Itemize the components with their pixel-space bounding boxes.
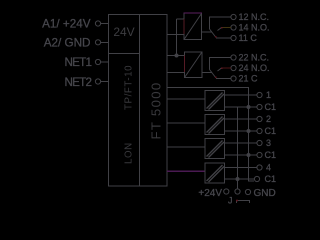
terminal C1 circle c (257, 152, 262, 157)
wire 14 N.O. (222, 27, 232, 29)
svg-text:1: 1 (266, 90, 271, 100)
node junction C1 c (247, 153, 251, 157)
node SW1 N.O. contact speck (221, 27, 223, 29)
wire 12 N.C. (210, 17, 232, 29)
svg-text:4: 4 (266, 163, 271, 173)
svg-text:21 C: 21 C (239, 74, 259, 84)
terminal A1 circle (95, 21, 100, 26)
terminal 2 circle (257, 116, 262, 121)
opto-isolator O3 (205, 139, 225, 159)
contact SW2 (relay2) (202, 55, 236, 81)
module U1 main box (109, 15, 168, 187)
wire relay1 coil top feed (177, 18, 185, 20)
node SW1 N.C. contact speck (215, 36, 217, 38)
terminal 22 circle (231, 55, 236, 60)
node junction C1 b (247, 129, 251, 133)
svg-text:C1: C1 (265, 174, 277, 184)
wire A1 stub (101, 23, 109, 25)
wire relay2 top feed drop (176, 19, 178, 56)
terminal 11 circle (231, 35, 236, 40)
wire relay1 coil bottom feed (167, 34, 184, 36)
terminal 4 circle (257, 165, 262, 170)
terminal C1 circle b (257, 128, 262, 133)
wire output 2 (225, 118, 258, 120)
jumper J line (237, 201, 250, 204)
relay K2 coil (185, 52, 203, 78)
wire output 4 (225, 167, 258, 169)
24V cell divider (109, 53, 140, 55)
terminal NET2 circle (95, 79, 100, 84)
wire C1 return bus (237, 107, 239, 189)
svg-text:GND: GND (254, 188, 276, 199)
svg-text:22 N.C.: 22 N.C. (239, 53, 270, 63)
terminal NET1 circle (95, 59, 100, 64)
node junction C1 a (247, 105, 251, 109)
terminal GND circle (245, 189, 250, 194)
svg-text:A2/ GND: A2/ GND (44, 36, 91, 49)
terminal 1 circle (257, 92, 262, 97)
wire opto2 input (167, 122, 205, 124)
terminal 14 circle (231, 25, 236, 30)
svg-text:J: J (228, 196, 233, 206)
svg-text:11 C: 11 C (239, 33, 258, 43)
contact SW1 (relay1) (202, 14, 237, 40)
wire 11 C (216, 37, 231, 39)
wire C1 a (225, 106, 258, 108)
wire relay2 coil top feed (167, 55, 185, 57)
svg-text:2: 2 (266, 114, 271, 124)
svg-text:C1: C1 (265, 102, 277, 112)
svg-text:C1: C1 (265, 150, 277, 160)
svg-text:FT 5000: FT 5000 (149, 82, 164, 140)
wire 22 N.C. (210, 58, 232, 70)
svg-text:C1: C1 (265, 126, 277, 136)
terminal 21 circle (231, 76, 236, 81)
svg-text:24 N.O.: 24 N.O. (239, 63, 270, 73)
wire relay2 coil bottom feed (167, 72, 185, 74)
svg-text:A1/ +24V: A1/ +24V (42, 18, 91, 31)
contact SW2 N.O. tick (218, 68, 222, 71)
contact SW2 arm (210, 70, 217, 79)
opto-isolator O2 (205, 115, 225, 135)
wire C1 c (225, 154, 258, 156)
module internal divider (139, 15, 141, 187)
terminal 3 circle (257, 140, 262, 145)
svg-text:NET1: NET1 (65, 56, 93, 69)
relay K1 coil (184, 13, 203, 40)
jumper J red mark (236, 200, 238, 202)
svg-text:24V: 24V (113, 25, 134, 39)
contact SW1 arm (210, 29, 217, 38)
wire opto1 input (167, 98, 205, 100)
wire C1 b (225, 130, 258, 132)
terminal 24 circle (231, 65, 236, 70)
node SW2 N.O. contact speck (221, 67, 223, 69)
wire SW1 actuator (202, 31, 213, 33)
opto-isolator O1 (205, 91, 225, 111)
wire NET2 stub (101, 81, 109, 83)
wire output 3 (225, 142, 258, 144)
terminal C1 bus circle (235, 189, 240, 194)
svg-text:12 N.C.: 12 N.C. (239, 12, 270, 22)
svg-text:NET2: NET2 (65, 76, 93, 89)
terminal A2 circle (95, 40, 100, 45)
node junction relay2 feed (175, 54, 179, 58)
wire A2 stub (101, 41, 109, 43)
terminal 12 circle (231, 14, 236, 19)
svg-text:14 N.O.: 14 N.O. (239, 23, 270, 33)
terminal C1 circle d (254, 176, 259, 181)
contact SW1 N.O. tick (218, 28, 222, 31)
terminal C1 circle a (257, 104, 262, 109)
wire output 1 (225, 94, 258, 96)
node junction C1 bus bottom (236, 177, 240, 181)
wire 21 C (216, 78, 231, 80)
wire opto4 input (violet) (167, 170, 205, 172)
wire opto3 input (167, 146, 205, 148)
opto-isolator O4 (205, 163, 225, 183)
node SW2 N.C. contact speck (215, 76, 217, 78)
svg-text:3: 3 (266, 138, 271, 148)
wire 24 N.O. (222, 67, 232, 69)
terminal +24V circle (224, 189, 229, 194)
wire C1 d (225, 178, 255, 180)
wire +24V rail (167, 88, 254, 182)
svg-text:TP/FT-10: TP/FT-10 (124, 65, 135, 110)
wire SW2 actuator (202, 72, 212, 74)
wire NET1 stub (101, 61, 109, 63)
svg-text:LON: LON (124, 142, 135, 164)
svg-text:+24V: +24V (198, 188, 222, 199)
